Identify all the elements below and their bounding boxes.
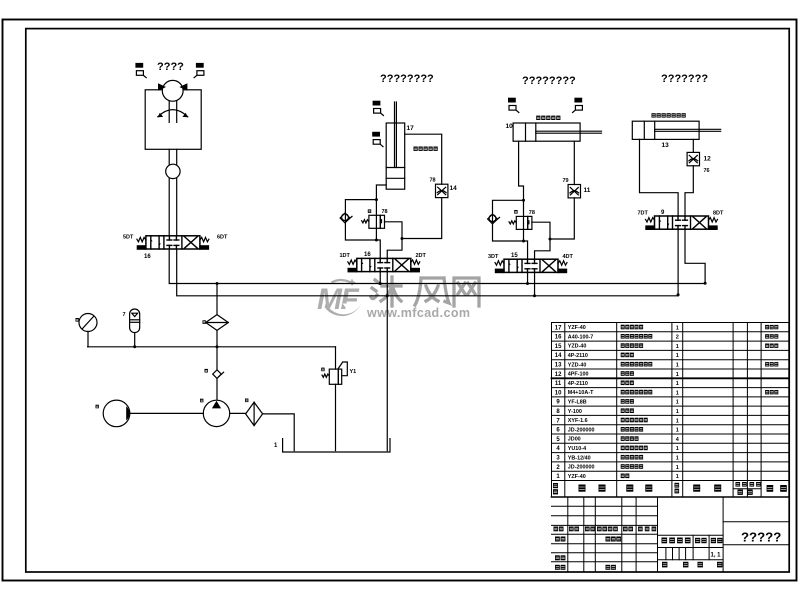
wire P bus: [169, 249, 705, 284]
filter suction filter 2: [246, 402, 263, 425]
label 3 pump: [200, 399, 203, 403]
svg-text:4P-2110: 4P-2110: [568, 353, 588, 359]
svg-text:Y1: Y1: [350, 369, 357, 375]
wire cyl3 right port to throttle 11: [573, 141, 575, 184]
svg-text:JD-200000: JD-200000: [568, 465, 595, 471]
svg-text:1: 1: [676, 409, 679, 415]
cylinder C17 piston: [386, 168, 405, 179]
directional valve V1 body: [137, 236, 209, 249]
svg-text:17: 17: [407, 125, 415, 132]
limit switch tag SQ3: [373, 101, 383, 115]
svg-text:1: 1: [676, 353, 679, 359]
pressure gauge 8: [79, 314, 97, 347]
svg-text:15: 15: [555, 344, 562, 350]
wire V4 left port to T bus end: [677, 229, 679, 296]
svg-text:14: 14: [450, 185, 458, 192]
label cylinder2 name blobs: [414, 147, 438, 151]
svg-text:?????: ?????: [741, 530, 781, 545]
svg-text:8DT: 8DT: [713, 211, 724, 217]
gauge bus wire: [88, 346, 336, 348]
directional valve V2 body: [348, 258, 420, 271]
label seq c2 left: [368, 209, 371, 213]
title block labels: [554, 527, 723, 570]
wire throttle 11 down join seq output: [550, 198, 574, 239]
svg-text:1: 1: [676, 400, 679, 406]
svg-text:10: 10: [555, 390, 562, 396]
svg-text:11: 11: [584, 187, 591, 194]
svg-text:6: 6: [556, 428, 560, 434]
wire throttle 14 down to junction: [402, 198, 442, 239]
svg-text:1: 1: [676, 428, 679, 434]
sequence valve 8 (c3): [509, 216, 532, 229]
svg-text:11: 11: [555, 381, 562, 387]
svg-text:78: 78: [382, 209, 388, 215]
svg-text:YF-L8B: YF-L8B: [568, 400, 587, 406]
cylinder C10 piston: [526, 123, 536, 141]
wire cyl2 bottom port down through seq valve: [376, 185, 386, 258]
svg-text:JD00: JD00: [568, 437, 581, 443]
wire check to pump: [216, 379, 218, 400]
svg-text:1: 1: [676, 344, 679, 350]
svg-text:78: 78: [430, 178, 436, 184]
throttle valve 11: [568, 185, 580, 198]
tank: [283, 439, 390, 452]
label cylinder3 name blobs: [536, 116, 560, 120]
svg-text:4PF-100: 4PF-100: [568, 372, 589, 378]
label 2: [245, 399, 248, 403]
directional valve V3 body: [495, 259, 567, 272]
svg-text:7DT: 7DT: [638, 211, 649, 217]
wire cyl4 right port to throttle 12: [692, 139, 694, 152]
wire V2 right port to T bus and tank return: [386, 272, 388, 296]
svg-text:4DT: 4DT: [563, 254, 574, 260]
svg-text:9: 9: [556, 400, 560, 406]
wire seq c2 output to valve V2: [385, 222, 403, 259]
svg-text:1: 1: [676, 465, 679, 471]
wire throttle 12 to valve V4: [685, 166, 693, 216]
wire V4 right port to P bus end: [685, 229, 705, 283]
svg-text:76: 76: [704, 168, 710, 174]
label 4 motor: [96, 405, 99, 409]
svg-text:XYF-1.6: XYF-1.6: [568, 418, 588, 424]
svg-text:YZF-40: YZF-40: [568, 474, 586, 480]
svg-text:www.mfcad.com: www.mfcad.com: [366, 306, 470, 320]
wire check bypass branch c3: [493, 200, 524, 241]
svg-text:4: 4: [676, 437, 680, 443]
svg-text:7: 7: [556, 418, 560, 424]
svg-text:2DT: 2DT: [416, 253, 427, 259]
svg-text:????: ????: [157, 61, 184, 73]
watermark char 风: [415, 278, 449, 305]
svg-text:1: 1: [676, 456, 679, 462]
svg-text:16: 16: [364, 252, 371, 258]
svg-text:1: 1: [676, 418, 679, 424]
svg-text:12: 12: [555, 372, 562, 378]
svg-text:5: 5: [556, 437, 560, 443]
relief valve 9: [322, 347, 347, 451]
svg-text:10: 10: [506, 123, 514, 130]
svg-text:7: 7: [123, 312, 126, 318]
svg-text:YZF-40: YZF-40: [568, 325, 586, 331]
watermark char 沐: [371, 277, 401, 306]
svg-text:1DT: 1DT: [340, 253, 351, 259]
motor shaft lines: [169, 101, 177, 122]
throttle valve 14: [436, 184, 448, 197]
watermark MF logo: [317, 279, 362, 317]
wire V3 ports to buses: [527, 272, 529, 283]
svg-text:13: 13: [662, 142, 670, 149]
svg-text:????????: ????????: [380, 73, 434, 85]
svg-text:15: 15: [511, 253, 518, 259]
limit switch tag SQ5: [509, 98, 519, 112]
wire check bypass branch c2: [345, 200, 376, 240]
rotary coupling circle: [166, 164, 180, 178]
label seq c3 left: [514, 210, 517, 214]
svg-text:1: 1: [676, 325, 679, 331]
svg-text:M4+10A-T: M4+10A-T: [568, 390, 594, 396]
svg-text:9: 9: [661, 210, 665, 216]
cylinder C17 rod: [395, 102, 397, 168]
svg-text:1: 1: [676, 372, 679, 378]
svg-text:5DT: 5DT: [123, 235, 134, 241]
svg-text:16: 16: [144, 254, 151, 260]
svg-text:????????: ????????: [522, 75, 576, 87]
svg-text:2: 2: [676, 335, 679, 341]
svg-text:MF: MF: [317, 283, 359, 316]
cylinder C13 piston: [644, 121, 654, 139]
shaft wire motor to pump: [131, 412, 204, 414]
wire pump to suction filter: [230, 412, 246, 414]
svg-text:1: 1: [676, 363, 679, 369]
svg-text:14: 14: [555, 353, 562, 359]
wire motor box to coupling: [169, 149, 177, 236]
svg-text:79: 79: [563, 178, 569, 184]
label 8 gauge: [76, 318, 79, 322]
electric motor 4: [103, 400, 130, 427]
svg-text:17: 17: [555, 325, 562, 331]
limit switch tag SQ1: [136, 64, 146, 78]
title block lower grid: [552, 497, 789, 572]
wire cyl3 left port main line: [519, 141, 528, 259]
watermark char 网: [454, 278, 479, 306]
svg-text:1: 1: [676, 390, 679, 396]
pump 3: [203, 400, 229, 426]
wire T bus: [177, 249, 678, 296]
limit switch tag SQ2: [194, 64, 204, 78]
cylinder C13 rod: [655, 129, 721, 131]
swing arc arrow: [158, 110, 188, 118]
label 5: [205, 369, 208, 373]
motor enclosure box: [145, 90, 201, 150]
svg-text:YU10-4: YU10-4: [568, 446, 586, 452]
svg-text:YZD-40: YZD-40: [568, 344, 587, 350]
svg-text:16: 16: [555, 335, 562, 341]
svg-text:78: 78: [529, 210, 535, 216]
cylinder C10 barrel: [513, 123, 580, 141]
cylinder C17 barrel: [386, 123, 405, 189]
svg-text:1: 1: [676, 446, 679, 452]
svg-text:YB-12/40: YB-12/40: [568, 455, 591, 461]
directional valve V4 body: [645, 216, 717, 229]
label 6: [203, 320, 206, 324]
wire filter to gauge bus: [216, 330, 218, 369]
svg-text:YZD-40: YZD-40: [568, 362, 587, 368]
check valve c2 bypass: [340, 213, 352, 223]
wire P bus to pump line: [216, 284, 218, 315]
svg-text:1: 1: [274, 443, 278, 449]
wire seq c3 output to valve V3: [532, 222, 550, 259]
filter return filter 6: [206, 315, 229, 331]
svg-text:4P-2110: 4P-2110: [568, 381, 588, 387]
svg-text:Y-100: Y-100: [568, 409, 582, 415]
sequence valve 8 (c2): [362, 215, 385, 228]
wire cyl4 left port to valve V4: [640, 139, 679, 216]
svg-text:1, 1: 1, 1: [711, 553, 722, 559]
svg-text:1: 1: [676, 474, 679, 480]
svg-text:1: 1: [676, 381, 679, 387]
svg-text:3DT: 3DT: [488, 254, 499, 260]
wire suction filter to tank: [263, 414, 295, 451]
svg-text:12: 12: [704, 156, 712, 163]
check valve c3 bypass: [488, 214, 500, 224]
wire cyl2 top port to throttle 14: [405, 134, 442, 184]
cylinder C10 rod: [536, 131, 602, 133]
svg-text:13: 13: [555, 363, 562, 369]
svg-text:A40-100-7: A40-100-7: [568, 334, 593, 340]
parts list rows content: [555, 325, 779, 480]
label sheet counts: [662, 562, 722, 568]
svg-text:???????: ???????: [661, 73, 708, 85]
check valve pump outlet 5: [213, 370, 224, 379]
wire T bus return to tank: [386, 296, 388, 451]
wire V2 ports to buses: [379, 272, 381, 284]
svg-text:4: 4: [556, 446, 560, 452]
parts list table grid: [552, 323, 789, 498]
parts list header labels: [553, 482, 787, 495]
hydraulic motor M1: [158, 80, 187, 101]
svg-text:3: 3: [556, 456, 560, 462]
limit switch tag SQ6: [573, 98, 583, 112]
svg-text:JD-200000: JD-200000: [568, 427, 595, 433]
svg-text:1: 1: [556, 474, 560, 480]
label 9 relief: [321, 368, 324, 372]
cylinder C13 barrel: [632, 121, 699, 139]
accumulator 7: [130, 309, 140, 347]
svg-text:2: 2: [556, 465, 560, 471]
limit switch tag SQ4: [373, 132, 383, 146]
throttle valve 12: [687, 152, 699, 165]
svg-text:6DT: 6DT: [217, 235, 228, 241]
svg-text:8: 8: [556, 409, 560, 415]
label cylinder4 name blobs: [652, 113, 686, 117]
